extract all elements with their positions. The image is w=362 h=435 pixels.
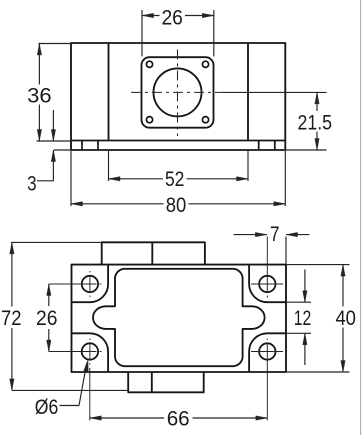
svg-text:40: 40	[335, 306, 356, 330]
svg-text:26: 26	[36, 306, 58, 330]
svg-text:52: 52	[165, 167, 185, 191]
svg-text:12: 12	[294, 306, 312, 330]
svg-text:Ø6: Ø6	[35, 395, 59, 419]
svg-text:72: 72	[1, 306, 22, 330]
svg-text:66: 66	[167, 406, 190, 430]
svg-text:80: 80	[166, 193, 187, 217]
svg-text:26: 26	[161, 6, 183, 30]
svg-text:3: 3	[27, 172, 37, 196]
svg-text:36: 36	[27, 84, 52, 108]
svg-text:21.5: 21.5	[298, 110, 333, 134]
svg-text:7: 7	[270, 222, 280, 246]
